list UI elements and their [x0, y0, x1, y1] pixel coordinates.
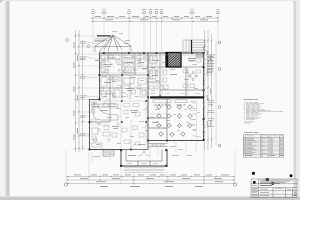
bottom annotation extension lines [92, 142, 196, 162]
outer wall top [99, 52, 204, 54]
canopy extra marks [112, 32, 130, 44]
canopy top-left [95, 35, 131, 52]
bar counter lower-left [93, 104, 118, 120]
entrance steps [124, 168, 164, 173]
left wing extra partitions [99, 53, 148, 99]
corridor walls [149, 99, 167, 140]
internal faint detail lines [91, 53, 188, 148]
stair shaft dark hatched [166, 53, 181, 68]
fourth right chain [215, 40, 217, 145]
vestibule between dining and porch [148, 144, 168, 147]
table grid [243, 135, 284, 157]
scan edge band right [294, 0, 297, 200]
bottom dimension ticks [67, 176, 235, 184]
terrace top-right [183, 40, 205, 52]
interior piers [121, 74, 161, 150]
canopy label [97, 35, 111, 36]
left dimension numbers [74, 42, 78, 140]
right grid bubbles [218, 41, 221, 147]
right chain numbers [203, 46, 211, 131]
extra smudge texture [95, 57, 200, 144]
title block frame [251, 179, 297, 198]
top dimension ticks [92, 17, 219, 22]
scan edge band bottom [0, 196, 300, 197]
notes closing lines [244, 122, 254, 124]
wc cluster middle [153, 100, 187, 106]
left grid bubble [66, 39, 90, 48]
outer wall bottom right segment [148, 140, 204, 142]
dining tables grid [0, 0, 3, 3]
dining right margin dim dashes [193, 103, 196, 137]
outer wall left lower [89, 99, 91, 150]
outer wall bottom left segment [89, 149, 121, 151]
left margin leader lines [86, 42, 99, 134]
labels above bubbles [92, 8, 220, 11]
extra right chain ticks [204, 46, 209, 134]
title block text smudges [252, 180, 297, 197]
wall step at y99 [89, 99, 100, 101]
bottom grid bubbles [64, 183, 236, 186]
terrace heavy wall [191, 40, 193, 52]
second top wall line [99, 54, 204, 56]
door arcs [110, 65, 165, 156]
outer wall right [203, 53, 205, 141]
page background [0, 0, 300, 200]
left wing fixtures [101, 56, 147, 97]
notes heading [244, 98, 259, 101]
lower-left room furniture [92, 128, 110, 147]
lower-left room fixtures [92, 103, 145, 145]
right dimension ticks [204, 40, 213, 141]
top dimension numbers [95, 16, 212, 20]
table row lines [243, 139, 284, 153]
more door arcs [104, 60, 191, 149]
right dimension chains [205, 30, 212, 150]
notes list numbers [243, 102, 246, 120]
table title [244, 131, 258, 134]
left margin label stacks [80, 42, 87, 136]
interior walls right wing [148, 53, 204, 96]
top extension lines [93, 14, 218, 52]
left dimension ticks [75, 35, 84, 150]
side stoop [103, 150, 114, 156]
right wing bath fixtures [150, 55, 204, 90]
scan edge band top [0, 0, 300, 1]
scan edge band left [0, 0, 5, 200]
porch columns [120, 149, 122, 151]
wall piers [89, 52, 205, 150]
punch hole dots [252, 172, 255, 175]
bottom dimension lines [66, 177, 235, 184]
window ticks on outer walls [88, 52, 204, 151]
dining room heavy top wall [150, 96, 204, 98]
table cell text smudges [244, 136, 283, 156]
interior walls left wing [99, 53, 148, 99]
notes lines [246, 102, 283, 120]
right callout notes lower [208, 100, 215, 127]
dining inner dim line [196, 100, 198, 139]
top grid bubbles [92, 11, 220, 14]
bottom dimension numbers [74, 175, 229, 187]
interior dimension smudges [92, 58, 201, 137]
entrance porch [121, 150, 167, 166]
logo dot [253, 181, 256, 184]
round table upper dining [150, 55, 198, 81]
bottom extension lines [66, 142, 235, 184]
outer wall left upper [99, 53, 101, 100]
kitchen counters [101, 55, 146, 97]
bottom annotation smudges [93, 146, 192, 164]
top dimension lines [91, 18, 219, 21]
wall bottom middle [121, 149, 148, 151]
left extension lines [74, 36, 99, 149]
right callout notes upper [207, 55, 215, 73]
room label smudges [95, 58, 196, 156]
left dimension chains [76, 30, 83, 152]
